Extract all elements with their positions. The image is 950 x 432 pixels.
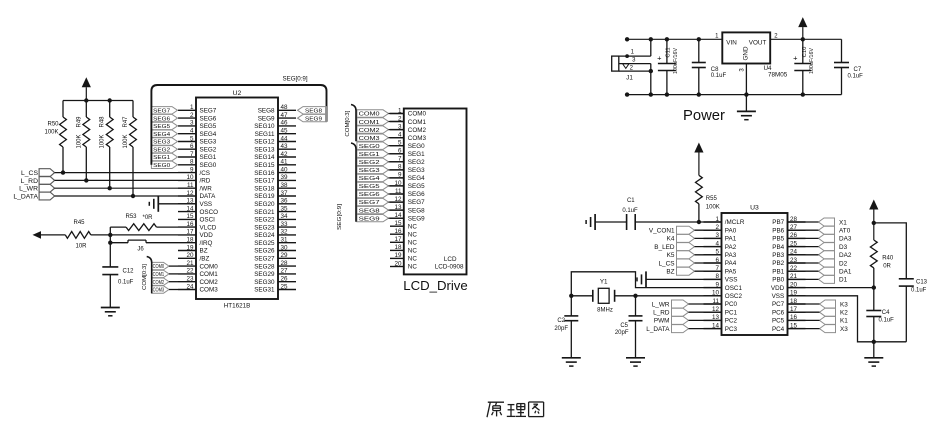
svg-text:14: 14	[186, 205, 194, 212]
svg-text:PC7: PC7	[772, 301, 785, 308]
svg-text:U2: U2	[233, 90, 242, 97]
svg-text:0.1uF: 0.1uF	[118, 280, 134, 286]
svg-text:L_WR: L_WR	[19, 186, 38, 193]
svg-text:20: 20	[394, 260, 402, 267]
svg-text:SEG28: SEG28	[254, 263, 275, 270]
svg-text:D3: D3	[839, 244, 848, 251]
svg-text:COM1: COM1	[200, 271, 219, 278]
svg-text:44: 44	[281, 135, 289, 142]
svg-text:26: 26	[281, 276, 289, 283]
svg-text:45: 45	[281, 128, 289, 135]
svg-text:10: 10	[186, 174, 194, 181]
svg-text:16: 16	[186, 221, 194, 228]
svg-text:C7: C7	[854, 67, 862, 73]
svg-text:C13: C13	[916, 280, 928, 286]
svg-text:25: 25	[281, 283, 289, 290]
svg-text:SEG9: SEG9	[305, 116, 322, 122]
svg-text:COM1: COM1	[408, 119, 427, 126]
svg-text:100uF/16V: 100uF/16V	[809, 48, 815, 74]
svg-text:PC0: PC0	[725, 301, 738, 308]
svg-text:SEG2: SEG2	[200, 146, 217, 153]
svg-text:OSC2: OSC2	[725, 293, 743, 300]
svg-text:33: 33	[281, 221, 289, 228]
svg-text:VSS: VSS	[772, 293, 785, 300]
svg-text:SEG4: SEG4	[408, 175, 425, 182]
svg-text:R53: R53	[125, 214, 137, 220]
svg-text:SEG8: SEG8	[305, 109, 322, 115]
svg-text:C12: C12	[123, 269, 135, 275]
svg-text:SEG1: SEG1	[408, 151, 425, 158]
svg-text:SEG4: SEG4	[200, 131, 217, 138]
svg-text:PC1: PC1	[725, 309, 738, 316]
svg-text:SEG18: SEG18	[254, 185, 275, 192]
svg-text:SEG1: SEG1	[200, 154, 217, 161]
svg-text:J1: J1	[626, 75, 633, 82]
svg-text:SEG11: SEG11	[255, 131, 275, 138]
svg-text:PC5: PC5	[772, 318, 785, 325]
svg-text:SEG2: SEG2	[153, 147, 170, 153]
svg-text:C2: C2	[557, 318, 565, 324]
svg-text:SEG7: SEG7	[359, 200, 380, 206]
svg-text:SEG3: SEG3	[153, 140, 170, 146]
svg-text:PB4: PB4	[772, 244, 784, 251]
svg-text:R55: R55	[706, 196, 718, 202]
svg-text:SEG7: SEG7	[153, 109, 170, 115]
svg-text:D2: D2	[839, 260, 848, 267]
svg-text:COM0: COM0	[153, 264, 165, 270]
svg-text:100K: 100K	[76, 134, 82, 148]
svg-text:46: 46	[281, 120, 289, 127]
svg-text:SEG16: SEG16	[254, 170, 275, 177]
svg-text:Power: Power	[683, 108, 725, 124]
svg-text:SEG29: SEG29	[254, 271, 275, 278]
svg-text:LCD_Drive: LCD_Drive	[403, 278, 468, 293]
svg-text:C5: C5	[620, 323, 628, 329]
svg-text:/CS: /CS	[200, 170, 211, 177]
svg-text:SEG20: SEG20	[254, 201, 275, 208]
svg-text:PA1: PA1	[725, 236, 737, 243]
svg-text:SEG8: SEG8	[408, 207, 425, 214]
svg-text:V_CON1: V_CON1	[649, 228, 675, 235]
svg-text:COM2: COM2	[408, 127, 427, 134]
svg-text:6: 6	[190, 143, 194, 150]
svg-text:4: 4	[190, 128, 194, 135]
svg-text:OSC1: OSC1	[725, 285, 743, 292]
svg-text:8MHz: 8MHz	[597, 308, 613, 314]
svg-text:0.1uF: 0.1uF	[848, 74, 864, 80]
svg-text:24: 24	[186, 283, 194, 290]
svg-text:PB1: PB1	[772, 268, 784, 275]
svg-text:C4: C4	[882, 310, 890, 316]
svg-text:R48: R48	[100, 116, 106, 128]
svg-text:SEG1: SEG1	[153, 155, 170, 161]
svg-text:LCD-0908: LCD-0908	[435, 264, 464, 271]
svg-text:78M05: 78M05	[768, 72, 788, 79]
svg-text:16: 16	[394, 228, 402, 235]
svg-text:COM3: COM3	[200, 287, 219, 294]
svg-text:K4: K4	[667, 236, 675, 243]
svg-text:SEG0: SEG0	[408, 143, 425, 150]
svg-text:SEG9: SEG9	[258, 115, 275, 122]
svg-text:SEG2: SEG2	[408, 159, 425, 166]
svg-text:SEG9: SEG9	[359, 216, 380, 222]
svg-text:5: 5	[190, 135, 194, 142]
svg-text:COM3: COM3	[408, 135, 427, 142]
svg-text:15: 15	[394, 220, 402, 227]
svg-text:100K: 100K	[44, 130, 58, 136]
svg-text:NC: NC	[408, 231, 418, 238]
svg-text:L_DATA: L_DATA	[13, 193, 38, 200]
svg-text:28: 28	[281, 260, 289, 267]
svg-text:SEG5: SEG5	[359, 184, 380, 190]
svg-text:23: 23	[186, 276, 194, 283]
svg-text:B_LED: B_LED	[654, 244, 675, 251]
svg-text:SEG5: SEG5	[153, 124, 170, 130]
svg-text:SEG3: SEG3	[359, 168, 380, 174]
svg-text:COM0: COM0	[408, 111, 427, 118]
svg-text:SEG3: SEG3	[408, 167, 425, 174]
svg-text:R40: R40	[882, 256, 894, 262]
svg-text:Y1: Y1	[600, 279, 608, 286]
svg-text:12: 12	[186, 190, 194, 197]
svg-text:SEG6: SEG6	[408, 191, 425, 198]
svg-text:DATA: DATA	[200, 193, 217, 200]
svg-text:L_DATA: L_DATA	[646, 326, 670, 333]
svg-text:C10: C10	[802, 47, 808, 58]
svg-text:SEG7: SEG7	[408, 199, 425, 206]
svg-text:K1: K1	[840, 318, 848, 325]
svg-text:/WR: /WR	[200, 185, 213, 192]
svg-text:PB5: PB5	[772, 236, 784, 243]
svg-text:U3: U3	[750, 205, 759, 212]
svg-text:VSS: VSS	[200, 201, 213, 208]
svg-text:2: 2	[190, 112, 194, 119]
svg-text:SEG17: SEG17	[254, 178, 275, 185]
svg-text:VOUT: VOUT	[749, 40, 767, 47]
svg-text:SEG8: SEG8	[258, 108, 275, 115]
svg-text:SEG13: SEG13	[254, 146, 275, 153]
svg-text:D1: D1	[839, 277, 848, 284]
svg-text:20pF: 20pF	[615, 330, 629, 336]
svg-text:PC4: PC4	[772, 326, 785, 333]
svg-text:SEG4: SEG4	[359, 176, 381, 182]
svg-text:R49: R49	[76, 116, 82, 128]
svg-text:PA2: PA2	[725, 244, 737, 251]
svg-text:COM1: COM1	[359, 120, 380, 126]
svg-text:20: 20	[186, 252, 194, 259]
svg-text:J6: J6	[137, 247, 144, 253]
svg-text:SEG6: SEG6	[359, 192, 380, 198]
svg-text:SEG9: SEG9	[408, 215, 425, 222]
svg-text:100uF/16V: 100uF/16V	[673, 48, 679, 74]
svg-text:PA0: PA0	[725, 227, 737, 234]
svg-text:SEG12: SEG12	[254, 139, 275, 146]
svg-text:3: 3	[190, 120, 194, 127]
svg-text:COM2: COM2	[153, 280, 165, 286]
svg-text:0.1uF: 0.1uF	[622, 208, 638, 214]
svg-text:19: 19	[186, 244, 194, 251]
svg-text:R45: R45	[73, 220, 85, 226]
svg-text:L_RD: L_RD	[653, 310, 670, 317]
svg-text:PA5: PA5	[725, 268, 737, 275]
svg-text:SEG0: SEG0	[200, 162, 217, 169]
svg-text:SEG[0:9]: SEG[0:9]	[337, 203, 343, 230]
svg-text:35: 35	[281, 205, 289, 212]
svg-text:R50: R50	[47, 122, 59, 128]
svg-text:COM1: COM1	[153, 272, 165, 278]
svg-text:K2: K2	[840, 310, 848, 317]
svg-text:NC: NC	[408, 256, 418, 263]
svg-text:SEG26: SEG26	[254, 248, 275, 255]
svg-text:38: 38	[281, 182, 289, 189]
svg-text:AT0: AT0	[839, 228, 851, 235]
svg-text:COM0: COM0	[359, 112, 380, 118]
svg-text:34: 34	[281, 213, 289, 220]
svg-text:HT1621B: HT1621B	[224, 303, 251, 310]
svg-text:PB3: PB3	[772, 252, 784, 259]
svg-text:COM2: COM2	[359, 128, 380, 134]
svg-text:SEG0: SEG0	[359, 144, 380, 150]
svg-text:PB2: PB2	[772, 260, 784, 267]
svg-text:27: 27	[281, 268, 289, 275]
svg-text:0.1uF: 0.1uF	[911, 288, 927, 294]
svg-text:L_WR: L_WR	[652, 301, 670, 308]
svg-text:19: 19	[394, 252, 402, 259]
svg-text:COM0: COM0	[200, 263, 219, 270]
svg-text:*0R: *0R	[142, 215, 153, 221]
svg-text:SEG1: SEG1	[359, 152, 380, 158]
svg-text:C1: C1	[627, 198, 635, 204]
svg-text:PB0: PB0	[772, 277, 784, 284]
svg-text:OSCI: OSCI	[200, 217, 216, 224]
svg-text:NC: NC	[408, 248, 418, 255]
svg-text:32: 32	[281, 229, 289, 236]
svg-text:DA1: DA1	[839, 269, 852, 276]
svg-text:SEG30: SEG30	[254, 279, 275, 286]
svg-text:NC: NC	[408, 264, 418, 271]
svg-text:1: 1	[190, 104, 194, 111]
svg-text:SEG15: SEG15	[254, 162, 275, 169]
svg-text:BZ: BZ	[200, 248, 208, 255]
svg-text:36: 36	[281, 198, 289, 205]
svg-text:DA3: DA3	[839, 236, 852, 243]
svg-text:SEG2: SEG2	[359, 160, 380, 166]
svg-text:L_RD: L_RD	[21, 178, 38, 185]
svg-text:VDD: VDD	[771, 285, 785, 292]
svg-text:SEG31: SEG31	[254, 287, 275, 294]
svg-text:47: 47	[281, 112, 289, 119]
svg-text:PWM: PWM	[654, 318, 670, 325]
svg-text:100K: 100K	[123, 134, 129, 148]
svg-text:22: 22	[186, 268, 194, 275]
svg-text:30: 30	[281, 244, 289, 251]
svg-text:L_CS: L_CS	[21, 170, 38, 177]
svg-text:VLCD: VLCD	[200, 224, 217, 231]
svg-text:SEG25: SEG25	[254, 240, 275, 247]
svg-text:SEG6: SEG6	[153, 116, 170, 122]
svg-text:X3: X3	[840, 326, 848, 333]
svg-text:SEG19: SEG19	[254, 193, 275, 200]
svg-text:SEG5: SEG5	[200, 123, 217, 130]
svg-text:SEG5: SEG5	[408, 183, 425, 190]
svg-text:PB6: PB6	[772, 227, 784, 234]
svg-text:VSS: VSS	[725, 277, 738, 284]
svg-text:LCD: LCD	[444, 256, 457, 263]
svg-text:PC6: PC6	[772, 309, 785, 316]
svg-text:+: +	[657, 54, 662, 63]
svg-text:0R: 0R	[883, 264, 891, 270]
svg-text:GND: GND	[743, 46, 750, 60]
svg-text:39: 39	[281, 174, 289, 181]
svg-text:48: 48	[281, 104, 289, 111]
svg-text:R47: R47	[123, 116, 129, 128]
svg-text:SEG6: SEG6	[200, 115, 217, 122]
svg-text:SEG[0:9]: SEG[0:9]	[282, 76, 307, 83]
svg-text:41: 41	[281, 159, 289, 166]
svg-text:29: 29	[281, 252, 289, 259]
svg-text:18: 18	[394, 244, 402, 251]
svg-text:/BZ: /BZ	[200, 256, 210, 263]
svg-text:COM[0:3]: COM[0:3]	[345, 110, 351, 137]
svg-text:+: +	[793, 54, 798, 63]
svg-text:SEG3: SEG3	[200, 139, 217, 146]
svg-text:8: 8	[190, 159, 194, 166]
svg-text:SEG22: SEG22	[254, 217, 275, 224]
svg-text:PA4: PA4	[725, 260, 737, 267]
svg-text:20pF: 20pF	[554, 326, 568, 332]
svg-text:SEG23: SEG23	[254, 224, 275, 231]
svg-text:SEG24: SEG24	[254, 232, 275, 239]
svg-text:15: 15	[186, 213, 194, 220]
svg-text:18: 18	[186, 237, 194, 244]
svg-text:VDD: VDD	[200, 232, 214, 239]
svg-text:DA2: DA2	[839, 252, 852, 259]
svg-text:NC: NC	[408, 240, 418, 247]
svg-text:17: 17	[186, 229, 194, 236]
svg-text:SEG7: SEG7	[200, 108, 217, 115]
svg-text:OSCO: OSCO	[200, 209, 219, 216]
svg-text:SEG27: SEG27	[254, 256, 275, 263]
svg-text:PB7: PB7	[772, 219, 784, 226]
svg-text:X1: X1	[839, 219, 847, 226]
svg-text:17: 17	[394, 236, 402, 243]
svg-text:PC2: PC2	[725, 318, 738, 325]
svg-text:9: 9	[190, 166, 194, 173]
svg-text:42: 42	[281, 151, 289, 158]
svg-text:L_CS: L_CS	[659, 260, 675, 267]
svg-text:PC3: PC3	[725, 326, 738, 333]
svg-text:100K: 100K	[100, 134, 106, 148]
svg-text:K5: K5	[667, 252, 675, 259]
svg-text:7: 7	[190, 151, 194, 158]
svg-text:/RD: /RD	[200, 178, 211, 185]
svg-text:/IRQ: /IRQ	[200, 240, 213, 247]
svg-text:PA3: PA3	[725, 252, 737, 259]
svg-text:100K: 100K	[706, 205, 720, 211]
svg-text:COM[0:3]: COM[0:3]	[142, 263, 148, 290]
svg-text:37: 37	[281, 190, 289, 197]
svg-text:21: 21	[186, 260, 194, 267]
svg-text:SEG14: SEG14	[254, 154, 275, 161]
svg-text:SEG0: SEG0	[153, 163, 170, 169]
svg-text:31: 31	[281, 237, 289, 244]
svg-text:BZ: BZ	[666, 269, 674, 276]
svg-text:COM3: COM3	[359, 136, 380, 142]
svg-text:K3: K3	[840, 301, 848, 308]
svg-text:SEG8: SEG8	[359, 208, 380, 214]
svg-text:/MCLR: /MCLR	[725, 219, 745, 226]
svg-text:COM3: COM3	[153, 288, 165, 294]
svg-text:SEG10: SEG10	[254, 123, 275, 130]
svg-text:COM2: COM2	[200, 279, 219, 286]
svg-text:11: 11	[187, 182, 194, 189]
svg-text:C11: C11	[666, 47, 672, 57]
svg-text:10R: 10R	[75, 244, 87, 250]
svg-text:SEG21: SEG21	[254, 209, 275, 216]
svg-text:0.1uF: 0.1uF	[711, 73, 727, 79]
svg-text:SEG4: SEG4	[153, 132, 171, 138]
svg-text:NC: NC	[408, 223, 418, 230]
svg-text:40: 40	[281, 166, 289, 173]
svg-text:0.1uF: 0.1uF	[879, 318, 895, 324]
svg-text:43: 43	[281, 143, 289, 150]
svg-text:VIN: VIN	[726, 40, 737, 47]
